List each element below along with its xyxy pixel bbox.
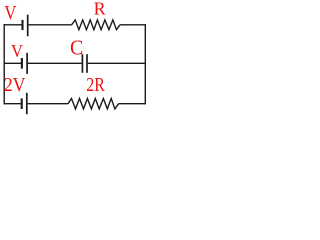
wire left vertical bus: [3, 24, 5, 104]
svg-text:2V: 2V: [4, 74, 26, 96]
svg-text:V: V: [11, 41, 23, 61]
svg-text:2R: 2R: [86, 74, 105, 96]
wire top rail left segment: [4, 24, 22, 26]
svg-text:C: C: [70, 35, 83, 59]
battery V1: [23, 15, 28, 37]
battery V2: [22, 53, 27, 74]
wire top rail middle segment: [29, 24, 72, 26]
battery V3: [22, 93, 27, 114]
resistor R: [72, 20, 120, 30]
capacitor C: [82, 54, 87, 73]
wire bottom rail middle segment: [28, 103, 69, 105]
wire middle rail middle segment: [28, 62, 82, 64]
wire middle rail right segment: [88, 62, 146, 64]
svg-text:R: R: [94, 0, 106, 19]
wire right vertical bus: [144, 24, 146, 104]
resistor 2R: [68, 99, 119, 109]
wire bottom rail left segment: [4, 103, 21, 105]
wire top rail right segment: [120, 24, 146, 26]
svg-text:V: V: [4, 2, 17, 24]
wire middle rail left segment: [4, 62, 22, 64]
wire bottom rail right segment: [119, 103, 146, 105]
